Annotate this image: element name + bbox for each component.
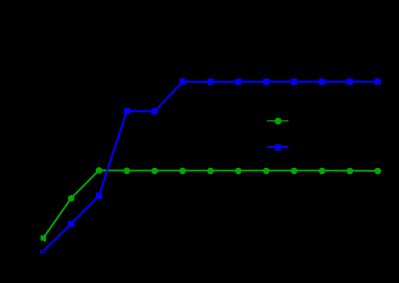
green marker pt0 clipped blob (two bars) <box>41 235 44 241</box>
legend sample: blue entry <box>267 146 288 148</box>
blue square markers <box>68 79 381 228</box>
wire: blue series line <box>44 82 378 251</box>
wire: green series line <box>43 170 378 238</box>
blue pt0 clipped pieces <box>40 250 43 251</box>
legend sample: green entry <box>267 120 289 122</box>
green circle markers <box>68 167 381 202</box>
